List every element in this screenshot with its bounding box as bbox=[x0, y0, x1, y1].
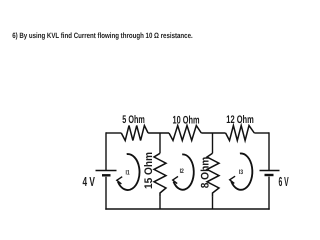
wire between R1 and node A bbox=[148, 132, 169, 134]
svg-text:15 Ohm: 15 Ohm bbox=[143, 152, 155, 189]
wire bottom bbox=[105, 208, 269, 210]
wire top-right segment bbox=[254, 132, 269, 134]
battery V1 short plate bbox=[102, 174, 111, 176]
wire 15 Ohm branch upper bbox=[159, 133, 161, 153]
resistor R1 5 Ohm bbox=[121, 126, 148, 141]
wire top-left segment bbox=[106, 132, 121, 134]
svg-text:10 Ohm: 10 Ohm bbox=[173, 115, 200, 127]
wire 8 Ohm branch upper bbox=[212, 133, 214, 153]
wire right branch lower bbox=[268, 177, 270, 210]
resistor R2 10 Ohm bbox=[169, 126, 201, 141]
svg-text:4 V: 4 V bbox=[83, 174, 96, 189]
svg-text:I1: I1 bbox=[126, 169, 130, 176]
resistor R5 8 Ohm bbox=[207, 153, 219, 196]
wire left branch upper bbox=[105, 132, 107, 170]
wire between R2 and node B bbox=[201, 132, 225, 134]
battery V1 long plate bbox=[96, 170, 117, 172]
wire right branch upper bbox=[268, 132, 270, 170]
wire 15 Ohm branch lower bbox=[159, 197, 161, 209]
battery V2 short plate bbox=[265, 174, 274, 176]
svg-text:I2: I2 bbox=[180, 168, 184, 175]
mesh arrow I2 bbox=[173, 154, 194, 189]
svg-text:12 Ohm: 12 Ohm bbox=[226, 114, 254, 126]
resistor R3 12 Ohm bbox=[226, 126, 255, 141]
svg-text:8 Ohm: 8 Ohm bbox=[199, 157, 211, 189]
svg-text:6) By using KVL find Current f: 6) By using KVL find Current flowing thr… bbox=[12, 31, 193, 40]
wire 8 Ohm branch lower bbox=[212, 197, 214, 209]
svg-text:I3: I3 bbox=[239, 169, 243, 176]
wire left branch lower bbox=[105, 177, 107, 210]
resistor R4 15 Ohm bbox=[154, 153, 166, 196]
mesh arrow I3 bbox=[230, 153, 253, 189]
battery V2 long plate bbox=[260, 170, 280, 172]
mesh arrow I1 bbox=[117, 154, 140, 190]
svg-text:6 V: 6 V bbox=[279, 174, 289, 189]
svg-text:5 Ohm: 5 Ohm bbox=[122, 114, 145, 126]
